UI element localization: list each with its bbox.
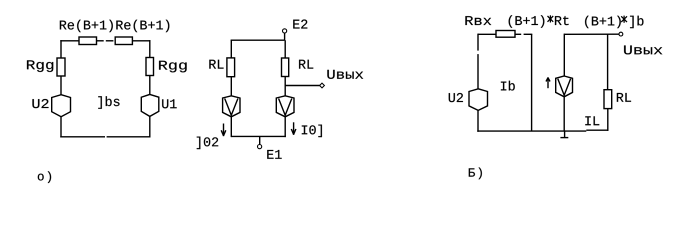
ground bar (560, 137, 568, 139)
wire mid right branch upper (284, 40, 286, 58)
wire below I02 (230, 117, 232, 137)
source U2 a (52, 95, 71, 117)
resistor Rvx box (496, 31, 515, 38)
wire a left vertical upper (60, 40, 62, 58)
resistor Rgg left (57, 58, 65, 76)
wire RL b vertical upper (607, 34, 609, 89)
wire from E2 (284, 33, 286, 40)
wire below U2 a (60, 117, 62, 138)
wire output tap (285, 85, 320, 87)
terminal Uvyh b (619, 32, 623, 36)
wire mid left branch lower (230, 77, 232, 96)
wire a to top-right corner (132, 40, 150, 42)
wire b left vertical lower (477, 54, 479, 89)
label I02 (197, 137, 218, 149)
wire a after left box (97, 40, 104, 42)
wire mid bottom horizontal (231, 135, 286, 137)
label Ib right (630, 16, 643, 28)
label Re(B+1) right (116, 20, 169, 32)
arrow I01 (293, 122, 295, 135)
wire a top-left horizontal (60, 40, 79, 42)
wire b left vertical upper (477, 34, 479, 51)
wire mid top horizontal (231, 39, 285, 41)
ground stub (564, 131, 566, 137)
wire b top-left to Rvx box (478, 33, 496, 35)
label star 2 (621, 16, 627, 23)
wire mid left branch upper (230, 40, 232, 58)
arrow controlled source up (547, 77, 549, 88)
wire a bottom right segment (107, 136, 151, 138)
wire a right vertical to source (149, 76, 151, 95)
wire b right-loop left vertical (563, 34, 565, 76)
wire b after box (515, 33, 521, 35)
V mark controlled source (558, 79, 571, 95)
wire b top right horizontal (564, 33, 619, 35)
wire a right vertical upper (149, 40, 151, 57)
label E1 (267, 150, 281, 159)
current source I02 (223, 96, 240, 117)
label IL (585, 116, 599, 125)
resistor Re(B+1) right box (115, 37, 132, 45)
label Ibs (98, 96, 119, 108)
wire b bottom left segment (477, 130, 586, 132)
label U1 (162, 99, 177, 108)
label RL mid-left (209, 60, 223, 69)
resistor RL mid-right (282, 58, 289, 77)
wire a dash centre (106, 40, 114, 42)
label RL b (617, 93, 631, 102)
label Rvx (465, 16, 491, 25)
terminal E2 (283, 29, 287, 33)
resistor Re(B+1) left box (79, 37, 97, 45)
wire below I01 (284, 117, 286, 137)
label E2 (293, 20, 307, 29)
caption b (469, 168, 482, 180)
label Uvyh mid (327, 70, 363, 79)
wire E1 stub (259, 136, 261, 144)
controlled source hexagon (556, 76, 573, 97)
resistor RL b box (604, 90, 612, 109)
arrow I02 (223, 124, 225, 137)
label Ib (501, 81, 515, 91)
label Rgg right (159, 61, 187, 73)
label Rt (555, 16, 569, 25)
V mark I01 (279, 99, 292, 116)
resistor RL mid-left (227, 58, 235, 77)
wire below U2 b (477, 110, 479, 131)
label star 1 (548, 15, 554, 22)
label I01 (302, 125, 322, 137)
wire mid right branch lower (284, 77, 286, 96)
wire b middle vertical (531, 34, 533, 131)
wire RL b vertical lower (607, 109, 609, 131)
label Re(B+1) left (60, 20, 113, 32)
terminal E1 (258, 145, 262, 149)
V mark I02 (225, 99, 238, 116)
current source I01 (276, 96, 294, 117)
label U2 b (449, 93, 463, 102)
label (B+1) star-Ib part1 (585, 16, 621, 28)
wire b bottom right segment (586, 129, 608, 131)
label (B+1) star-Rt part1 (509, 15, 545, 27)
label Uvyh b (624, 45, 662, 54)
terminal Uvyh mid diamond (320, 83, 325, 88)
label U2 a (32, 99, 48, 108)
wire b dash to corner (524, 33, 533, 35)
caption a (38, 171, 51, 183)
source U1 (141, 94, 159, 116)
wire below U1 (149, 116, 151, 137)
resistor Rgg right (146, 58, 154, 76)
source U2 b (469, 89, 488, 111)
label Rgg left (27, 60, 53, 72)
wire below controlled source (563, 97, 565, 131)
wire a left vertical to source (60, 76, 62, 95)
wire a bottom left segment (60, 136, 105, 138)
label RL mid-right (299, 60, 313, 69)
